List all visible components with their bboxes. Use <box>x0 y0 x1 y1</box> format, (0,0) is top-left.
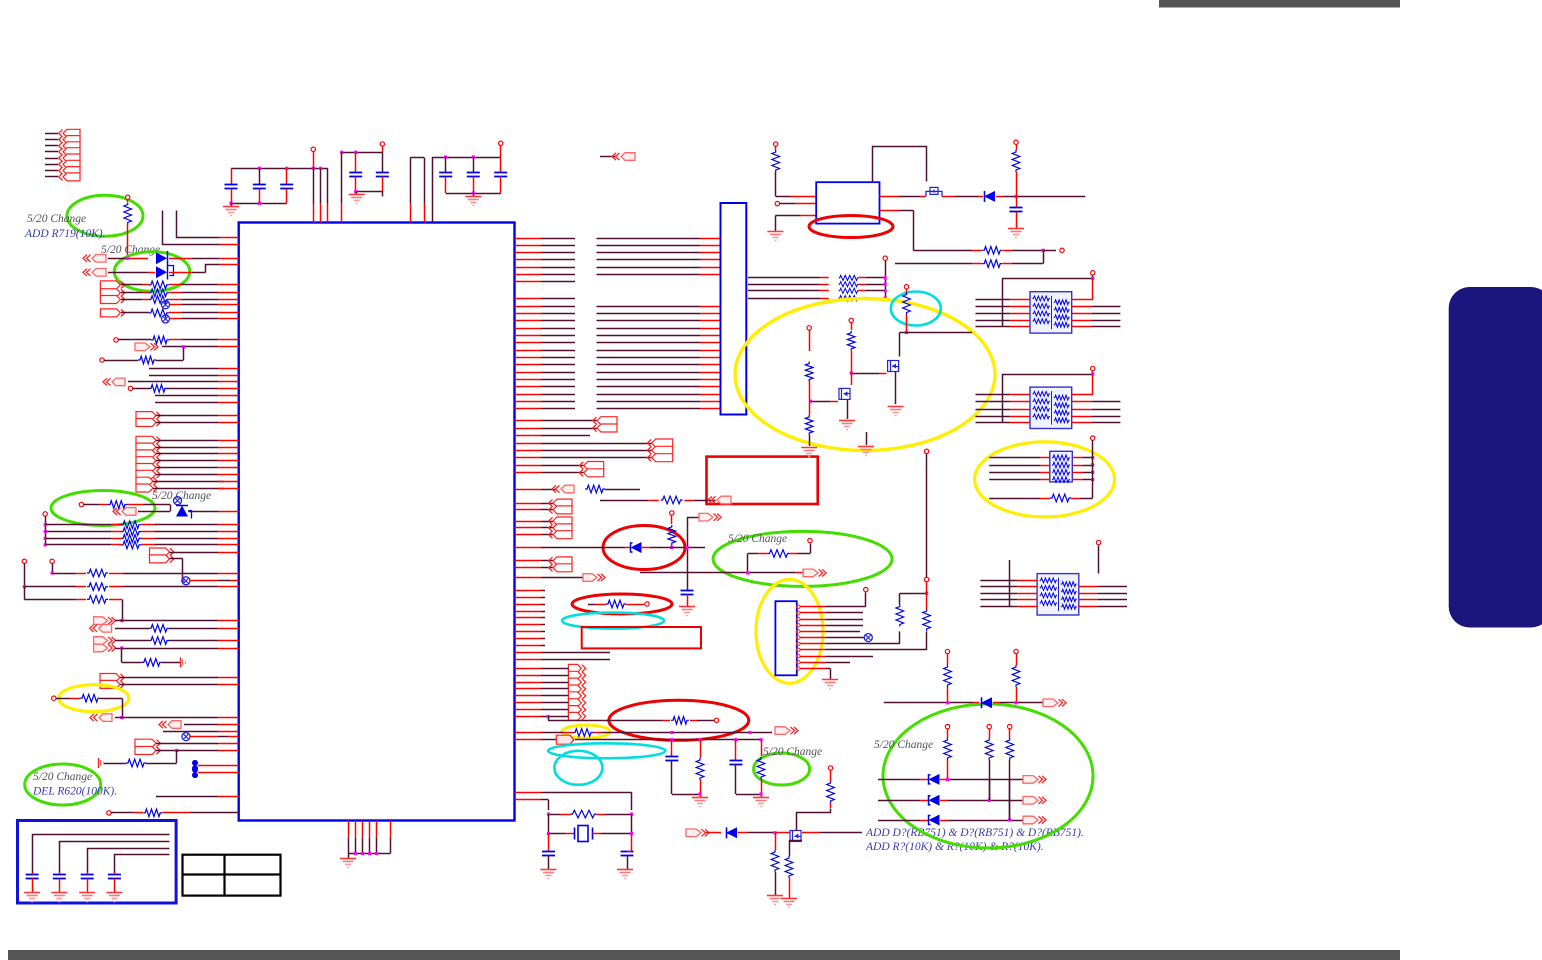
port P8 row 640 <box>94 637 108 645</box>
ground x789 <box>781 898 797 900</box>
row 340 resistor <box>118 339 151 341</box>
port P2 row 272 <box>83 269 91 276</box>
circled-X row 737 <box>182 733 190 741</box>
junction D4 <box>773 831 776 834</box>
wire U2 out <box>880 196 900 198</box>
bus wire to CN1 y372 <box>597 372 701 374</box>
capacitor C8 bank3 <box>500 157 502 173</box>
IC right stub y645 <box>515 645 542 647</box>
annotation ellipse green G4 <box>713 531 892 586</box>
IC right pin y379 <box>515 379 542 381</box>
connector hex row 440 <box>136 436 156 444</box>
IC right pin y357 <box>515 357 542 359</box>
ground bank1 <box>231 203 233 206</box>
IC right pin y408 <box>515 408 542 410</box>
resistor row 587 <box>23 585 26 588</box>
connector hex row 743 <box>135 739 156 747</box>
connector hex row 415 <box>136 412 156 420</box>
connector hex row 460 <box>136 457 156 465</box>
wire R719 top stub <box>127 200 129 203</box>
terminal G3 <box>79 502 83 506</box>
RN3 wires left <box>989 457 1040 459</box>
capacitor C10 <box>681 590 694 592</box>
wire row 402 <box>155 402 218 404</box>
resistor row 763 gnd <box>98 758 100 768</box>
capacitor C13 <box>548 834 550 852</box>
wire to U2 pin1 <box>776 196 790 198</box>
RN1 wires right <box>1072 306 1092 308</box>
wire G3 to IC <box>188 511 218 513</box>
IC bottom ground <box>348 854 350 858</box>
IC right pin y328 <box>515 328 542 330</box>
resistor RV drop x761 <box>761 740 763 756</box>
resistor row 720 <box>548 720 663 722</box>
connector CN2 <box>775 601 796 675</box>
port P15 row 577 <box>515 577 542 579</box>
IC right stub y638 <box>515 638 542 640</box>
terminal bank3 <box>499 141 503 145</box>
CN2 row5 <box>800 631 826 633</box>
resistor col x947 <box>944 738 952 760</box>
resistor stack row 284 <box>748 284 820 286</box>
wire right 435 <box>515 435 542 437</box>
svg-text:5/20 Change: 5/20 Change <box>728 533 787 545</box>
IC right pin y313 <box>515 313 542 315</box>
terminal row 360 <box>100 358 104 362</box>
circled-X E2 row 319 <box>162 315 170 323</box>
annotation ellipse green G7 <box>25 764 101 805</box>
hex connector bank y695 <box>568 692 581 700</box>
hex connector right y428 <box>515 428 542 430</box>
svg-text:ADD R?(10K) & R?(10K) & R?(10K: ADD R?(10K) & R?(10K) & R?(10K). <box>865 841 1044 853</box>
port P11 row 724 <box>159 721 167 728</box>
IC right pin y259 <box>515 259 542 261</box>
wire U2 top gate <box>873 147 927 183</box>
annotation ellipse red R4 <box>609 700 749 740</box>
hex right y560 <box>515 560 542 562</box>
xcirc G3 <box>174 497 182 505</box>
connector J2 pin row 4 <box>45 170 58 172</box>
ground Q2 <box>888 406 904 408</box>
regulator U2 <box>816 182 879 223</box>
IC right pin y394 <box>515 394 542 396</box>
wire Q1 to D9 <box>942 196 955 198</box>
port P20 row 779 <box>1023 776 1038 784</box>
resistor R xtal <box>549 814 561 816</box>
capacitor C14 <box>631 834 633 852</box>
connector hex row 422 <box>136 419 156 427</box>
connector J1 pin row 1 <box>45 133 58 135</box>
diode D5 <box>981 697 992 708</box>
resistor RV mid <box>847 331 855 351</box>
G4 resistor <box>748 553 758 555</box>
bus wire to CN1 y379 <box>597 379 701 381</box>
port P18 bottom <box>686 829 701 837</box>
resistor network RN1 <box>1030 292 1072 333</box>
G4 wire row 573 <box>747 554 749 573</box>
cap bank2 bottom bus <box>356 191 383 193</box>
annotation ellipse red R1 <box>809 216 893 238</box>
terminal R top x775 <box>774 142 778 146</box>
junction R719 row258 <box>126 257 129 260</box>
wire row 258 <box>108 258 128 260</box>
RN2 feed <box>1003 372 1093 423</box>
resistor RV x775 <box>775 833 777 850</box>
wire cyan to Q2 <box>900 332 907 334</box>
B3 ground 2 <box>51 892 67 894</box>
resistor row 531 <box>44 530 47 533</box>
cap bank2 top bus <box>342 152 383 154</box>
connector hex row 677 <box>100 674 120 682</box>
hex connector right y450 <box>515 450 542 452</box>
resistor row 538 <box>44 537 47 540</box>
port P6 row 621 <box>94 617 108 625</box>
IC bottom pins <box>348 821 350 839</box>
terminal cyan <box>904 285 908 289</box>
hex connector bank y716 <box>568 712 581 720</box>
wire row 703 <box>884 702 948 704</box>
wire D9 right <box>996 196 1004 198</box>
resistor row 599 <box>24 587 26 600</box>
hex connector bank y675 <box>568 671 581 679</box>
IC right stub y652 <box>515 652 542 654</box>
connector J2 pin row 2 <box>45 158 58 160</box>
RN3 bottom resistor <box>989 498 1040 500</box>
hex connector right y443 <box>515 443 542 445</box>
svg-text:5/20 Change: 5/20 Change <box>763 746 822 758</box>
bottom grey bar <box>8 950 1400 960</box>
diode D2 G3 <box>176 506 188 517</box>
resistor RV2 G6 <box>1012 665 1020 687</box>
connector J1 pin row 3 <box>45 145 58 147</box>
wire U2 pin3 gnd <box>775 215 800 217</box>
IC right stub y611 <box>515 611 542 613</box>
bus wire to CN1 y335 <box>597 335 701 337</box>
resistor RV1 G6 <box>944 665 952 687</box>
terminal col x947 <box>945 724 949 728</box>
terminal col x989 <box>987 724 991 728</box>
resistor row 524 <box>44 523 47 526</box>
annotation ellipse yellow Y5 <box>562 725 610 738</box>
bus wire to CN1 y386 <box>597 386 701 388</box>
hex connector right y420 <box>515 420 542 422</box>
connector J2 pin row 5 <box>45 176 58 178</box>
connector J2 pin row 3 <box>45 164 58 166</box>
port P10 row 718 <box>90 714 98 721</box>
wire Q3 drain up <box>797 809 831 831</box>
wire row 375 <box>149 375 218 377</box>
IC right pin y281 <box>515 281 542 283</box>
B3 ground 1 <box>24 892 40 894</box>
wire mid to Q4 <box>851 373 853 385</box>
ground x775 <box>767 895 783 897</box>
hex right y527 <box>515 527 542 529</box>
resistor row 264 <box>895 263 972 265</box>
blue box B3 <box>18 821 177 904</box>
connector hex row 453 <box>136 450 156 458</box>
connector hex row 559 <box>150 555 170 563</box>
resistor col x1009 <box>1006 738 1014 760</box>
terminal A x24 <box>22 559 26 563</box>
hex connector bank y709 <box>568 706 581 714</box>
bus wire to CN1 y328 <box>597 328 701 330</box>
annotation ellipse cyan C4e <box>554 751 602 785</box>
G3 resistor row <box>84 504 99 506</box>
svg-text:DEL R620(100K).: DEL R620(100K). <box>32 786 117 798</box>
bank2 risers <box>341 152 343 203</box>
annotation ellipse green G1 <box>67 195 143 236</box>
navy side panel <box>1449 287 1542 628</box>
IC right pin y372 <box>515 372 542 374</box>
RN3 feed <box>1091 436 1095 440</box>
connector CN1 <box>721 203 747 415</box>
CN2 row9 <box>800 656 826 658</box>
red change-box B2 <box>582 627 701 648</box>
IC right stub y631 <box>515 631 542 633</box>
bus wire to CN1 y274 <box>597 274 701 276</box>
port P22 row 517 <box>699 513 713 521</box>
wire U2 pin2 out <box>880 210 900 212</box>
B3 capacitor 4 <box>114 872 116 874</box>
CN2 row7 <box>800 643 826 645</box>
terminal RV1 G6 <box>945 649 949 653</box>
diode D4 <box>706 832 721 834</box>
resistor row 250 <box>913 250 972 252</box>
B3 wire 2 <box>60 842 170 873</box>
annotation ellipse green G5 <box>754 753 810 785</box>
wire Q4 source gnd <box>847 400 849 419</box>
bus wire to CN1 y259 <box>597 259 701 261</box>
wire corner row 245 <box>163 211 220 245</box>
circled-8 row 766 <box>192 760 198 766</box>
svg-text:5/20 Change: 5/20 Change <box>27 213 86 225</box>
resistor RV cyan <box>903 293 911 315</box>
capacitor C11 drop <box>671 740 673 756</box>
resistor RV x900 <box>896 605 904 627</box>
B3 ground 3 <box>79 892 95 894</box>
wire cyan right <box>907 332 973 334</box>
terminal row 698 <box>52 696 56 700</box>
RN1 feed <box>1003 276 1093 327</box>
IC right pin y364 <box>515 364 542 366</box>
bus wire to CN1 y401 <box>597 401 701 403</box>
hex connector bank y688 <box>568 685 581 693</box>
bus wire to CN1 y342 <box>597 342 701 344</box>
annotation ellipse cyan C1e <box>891 292 941 326</box>
terminal RV2 G6 <box>1014 649 1018 653</box>
ground Q4 <box>839 420 855 422</box>
wire row 272 right <box>169 272 192 274</box>
circled-X E1 row 305 <box>162 301 170 309</box>
connector hex row 467 <box>136 464 156 472</box>
junction cyan <box>905 331 908 334</box>
junction row 717 <box>547 715 550 718</box>
ground x866 <box>866 432 868 445</box>
transistor Q4 <box>839 388 850 399</box>
ground left <box>801 447 817 449</box>
IC U1 main controller <box>239 223 515 821</box>
resistor network RN3 <box>1050 451 1073 482</box>
terminal row 388 <box>128 386 132 390</box>
crystal X1 <box>549 833 566 835</box>
terminal R mid <box>849 318 853 322</box>
circled-X row 581 <box>182 577 190 585</box>
IC right pin y386 <box>515 386 542 388</box>
diode D8 row 820 <box>878 820 920 822</box>
port P21 row 800 <box>1023 797 1038 805</box>
terminal bank1 <box>311 147 315 151</box>
terminal x927 top <box>924 449 928 453</box>
capacitor C6 bank3 <box>445 157 447 173</box>
wire corner row 238 <box>177 211 220 238</box>
terminal B x52 <box>50 559 54 563</box>
port P22 row 820 <box>1023 816 1038 824</box>
CN2 row4 <box>800 625 826 627</box>
capacitor C12 drop <box>735 740 737 760</box>
wire row 796 <box>156 796 218 798</box>
transistor Q3 <box>790 831 801 842</box>
resistor RV drop x700 <box>700 740 702 758</box>
diode D7 row 800 <box>878 800 920 802</box>
hex connector right y457 <box>515 457 542 459</box>
terminal stack <box>883 256 887 260</box>
RN1 wires left <box>976 299 1011 301</box>
resistor network RN2 <box>1030 387 1072 428</box>
bus wire to CN1 y394 <box>597 394 701 396</box>
annotation ellipse green G3 <box>51 491 155 526</box>
bus wire to CN1 y238 <box>597 238 701 240</box>
annotation ellipse yellow Y1 <box>735 299 995 451</box>
capacitor C2 bank1 <box>259 168 261 184</box>
wire Q3 right <box>802 832 820 834</box>
wire row 258 right <box>169 258 192 260</box>
IC right pin y252 <box>515 252 542 254</box>
resistor row y284 with connector <box>100 281 120 289</box>
wire Q2 gate <box>851 373 879 375</box>
dual diode D1 <box>156 252 167 264</box>
diode D3 row 547 <box>515 547 542 549</box>
G4 terminal <box>810 544 812 554</box>
row 500 resistor to box <box>600 500 649 502</box>
RN4 wires left <box>980 580 1017 582</box>
annotation ellipse green G6 <box>883 704 1093 848</box>
terminal col x45 <box>43 512 47 516</box>
terminal x1016 <box>1014 140 1018 144</box>
bus wire to CN1 y350 <box>597 350 701 352</box>
bus wire to CN1 y320 <box>597 320 701 322</box>
RN4 wires right <box>1079 586 1099 588</box>
RN4 feed <box>1009 560 1011 606</box>
bus wire to CN1 y245 <box>597 245 701 247</box>
port P14 row 489 <box>515 489 542 491</box>
B3 ground 4 <box>106 892 122 894</box>
bus wire to CN1 y364 <box>597 364 701 366</box>
connector hex row 474 <box>136 470 156 478</box>
resistor stack row 290 <box>748 290 820 292</box>
port P7 row 628 <box>90 625 98 632</box>
IC right stub y659 <box>515 659 542 661</box>
transistor Q1 <box>926 191 942 196</box>
bus wire to CN1 y357 <box>597 357 701 359</box>
bus wire to CN1 y252 <box>597 252 701 254</box>
wire row 573 from IC <box>640 572 700 574</box>
connector hex row 684 <box>100 680 120 688</box>
svg-text:5/20 Change: 5/20 Change <box>33 771 92 783</box>
resistor row 732 <box>515 732 542 734</box>
IC right pin y401 <box>515 401 542 403</box>
resistor stack row 277 <box>748 277 820 279</box>
G3 port <box>113 508 121 515</box>
wire xtal mid <box>548 814 550 833</box>
bus wire to CN1 y408 <box>597 408 701 410</box>
circled-8 row 772 <box>192 767 198 773</box>
resistor row y299 with connector <box>100 296 120 304</box>
resistor RV x830 <box>828 766 832 770</box>
port P16 row 732 <box>775 727 790 735</box>
cap bank3 top bus <box>432 157 501 159</box>
resistor RV left2 <box>805 415 813 435</box>
hex connector bank y702 <box>568 699 581 707</box>
B3 capacitor 3 <box>87 872 89 874</box>
annotation ellipse cyan C3e <box>548 743 665 758</box>
CN2 row2 <box>800 612 826 614</box>
terminal R719 top <box>126 195 130 199</box>
svg-text:5/20 Change: 5/20 Change <box>874 739 933 751</box>
capacitor C1 bank1 <box>231 168 233 184</box>
ground x761 <box>753 797 769 799</box>
wire Q4 gate <box>811 401 830 403</box>
G6 col joins <box>989 779 991 800</box>
port P13 in box <box>708 496 716 503</box>
IC right pin y298 <box>515 298 542 300</box>
wire row 272 left <box>108 272 148 274</box>
annotation ellipse red R3 <box>572 594 672 614</box>
annotation ellipse yellow Y2 <box>975 442 1115 517</box>
ground C14 <box>617 869 633 871</box>
connector J2 pin row 1 <box>45 151 58 153</box>
port P12 top <box>600 156 616 158</box>
port P19 row 703 <box>1043 699 1058 707</box>
bank1 risers <box>313 169 315 204</box>
capacitor C4 bank2 <box>355 152 357 172</box>
IC right stub y624 <box>515 624 542 626</box>
port P4 row 347 <box>135 343 150 351</box>
wire row 740 <box>575 739 672 741</box>
transistor Q2 <box>888 361 899 372</box>
hex connector right y465 <box>515 465 542 467</box>
connector hex row 552 <box>150 548 170 556</box>
port P3 row 313 <box>100 309 120 317</box>
wire Q2 source gnd <box>895 372 897 404</box>
hex right y503 <box>515 503 542 505</box>
annotation ellipse yellow Y4 <box>59 685 129 712</box>
wire row 732 <box>163 731 218 733</box>
red change-box B1 <box>707 457 818 504</box>
B3 wire 1 <box>33 835 170 873</box>
bank2 risers2 <box>410 158 412 204</box>
IC right pin y267 <box>515 267 542 269</box>
resistor row 604 <box>588 604 596 606</box>
ground bank2 <box>356 192 358 195</box>
ground bank3 <box>473 193 475 196</box>
CN2 row10 <box>800 662 826 664</box>
CN2 row11 <box>800 668 826 670</box>
resistor RV x927 <box>923 609 931 631</box>
RN2 wires left <box>976 394 1011 396</box>
port P17 row 740 <box>515 739 542 741</box>
hex connector right y472 <box>515 472 542 474</box>
IC right stub y617 <box>515 617 542 619</box>
